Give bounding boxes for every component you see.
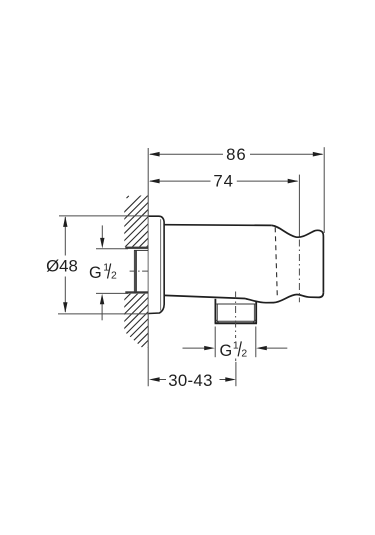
dimension 86 line [150, 153, 323, 155]
socket bottom edge [134, 291, 148, 293]
dimension 74 arrowheads [149, 179, 299, 184]
head top wave [272, 225, 324, 237]
svg-text:74: 74 [213, 172, 233, 191]
svg-text:2: 2 [111, 270, 117, 281]
head bottom wave [245, 293, 323, 303]
nipple right edge [255, 302, 257, 324]
G1/2 wall arrow up [101, 304, 103, 320]
dimension 30-43 line left [159, 379, 166, 381]
wall face line [147, 148, 149, 386]
svg-text:Ø48: Ø48 [46, 256, 78, 275]
svg-text:86: 86 [226, 145, 246, 164]
socket thread band top [125, 247, 148, 249]
G1/2 nipple extension lines [215, 327, 256, 358]
G1/2 nipple arrow right [266, 347, 287, 349]
body arm and head outline [164, 225, 323, 303]
nipple left edge [214, 299, 216, 324]
G1/2 wall extension lines [96, 249, 128, 294]
nipple bottom edge [215, 322, 257, 324]
extension line nipple axis [235, 362, 237, 386]
nipple inner verticals [217, 305, 254, 321]
extension line right 86 [323, 147, 325, 233]
socket thread band bottom [125, 291, 148, 293]
nipple shoulder line [216, 303, 255, 305]
G1/2 wall label [89, 262, 117, 281]
G1/2 wall arrow down [101, 225, 103, 239]
dimension 30-43 line right [220, 379, 227, 381]
svg-text:G: G [89, 264, 102, 282]
extension line right 74 [298, 175, 300, 238]
dimension 86 arrowheads [149, 152, 324, 157]
svg-text:1: 1 [233, 340, 239, 351]
dimension diameter48 extension top [59, 215, 148, 217]
arm bottom edge [164, 295, 245, 298]
G1/2 nipple arrow left [183, 347, 205, 349]
socket left wall bar [134, 250, 137, 292]
socket centerline [130, 270, 149, 272]
socket top edge [134, 249, 148, 251]
dimension diameter48 arrowheads [63, 216, 67, 313]
dimension diameter48 line [64, 217, 66, 312]
dimension diameter48 extension bottom [58, 313, 148, 315]
wall hatching lower [67, 190, 306, 350]
dimension 74 line [150, 180, 298, 182]
escutcheon outline [149, 216, 165, 313]
grip centerline dash-dot [298, 240, 300, 303]
wall hatching upper [0, 190, 204, 350]
G1/2 nipple label [220, 340, 248, 360]
svg-text:2: 2 [241, 348, 247, 359]
escutcheon inner line [160, 219, 162, 310]
body top edge [164, 224, 272, 227]
svg-text:30-43: 30-43 [168, 371, 212, 390]
svg-text:G: G [220, 342, 233, 360]
nipple bottom chamfers [216, 320, 256, 324]
head right edge [322, 237, 324, 293]
hidden edge dashed [275, 227, 277, 296]
nipple inner bottom line [218, 320, 255, 322]
nipple centerline dash-dot [235, 292, 237, 339]
